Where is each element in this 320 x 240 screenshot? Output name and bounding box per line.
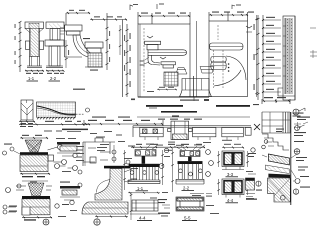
svg-text:4-4: 4-4 <box>227 198 234 203</box>
svg-text:5-5: 5-5 <box>184 216 191 221</box>
svg-text:2-2: 2-2 <box>183 186 190 191</box>
svg-text:3-3: 3-3 <box>227 172 234 177</box>
svg-text:4-4: 4-4 <box>139 216 146 221</box>
svg-text:1-1: 1-1 <box>28 76 35 81</box>
svg-text:1-1: 1-1 <box>137 186 144 191</box>
svg-text:2-2: 2-2 <box>50 76 57 81</box>
